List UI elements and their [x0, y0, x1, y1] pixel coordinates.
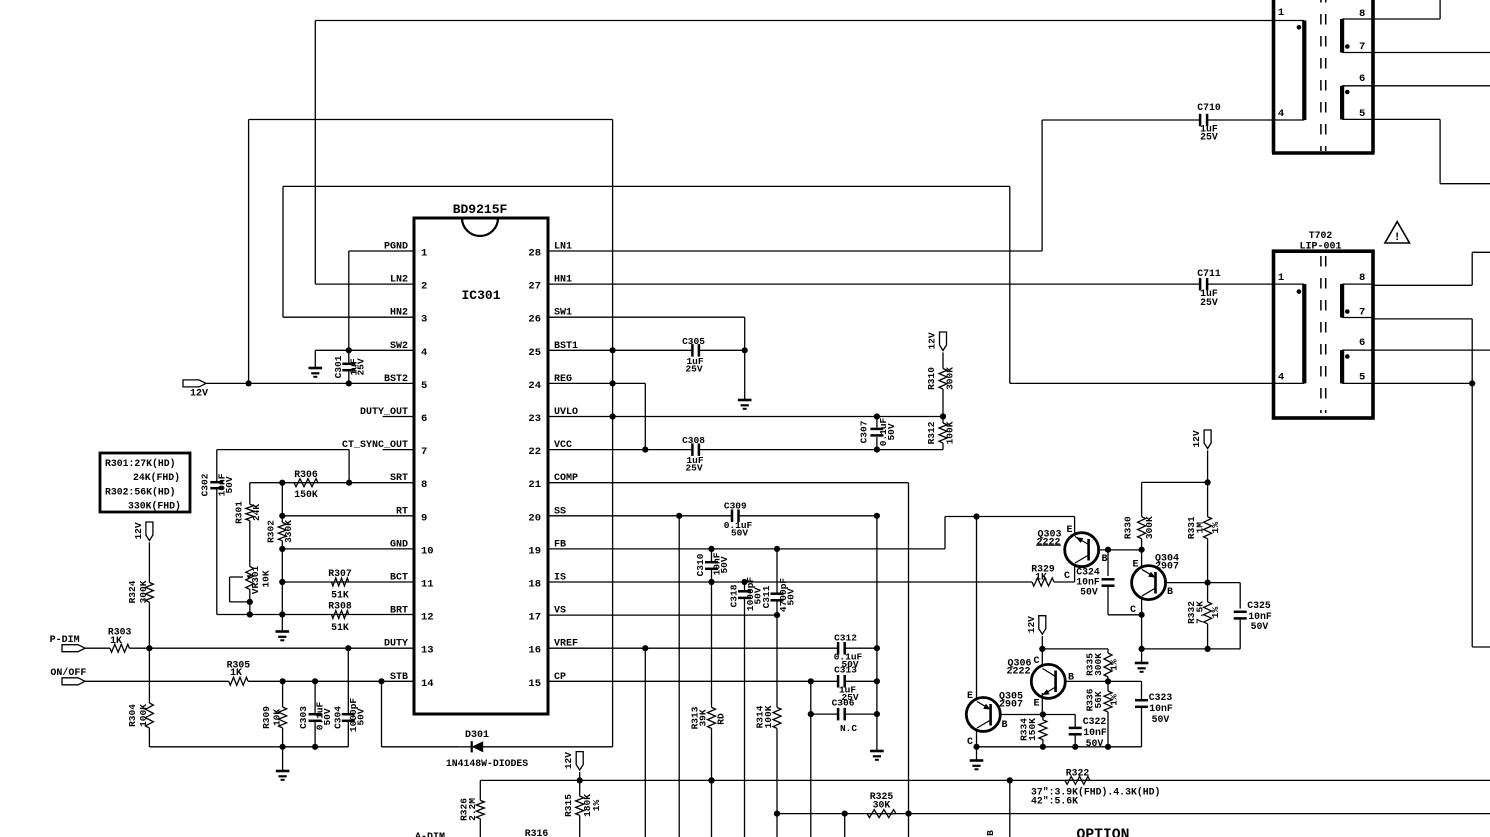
- capacitor C301 1uF 25V (SW2 to BST2): [333, 350, 367, 386]
- svg-text:1N4148W-DIODES: 1N4148W-DIODES: [446, 758, 528, 769]
- svg-text:300K: 300K: [1093, 653, 1104, 676]
- wire COMP pin21 to bottom: [548, 483, 912, 837]
- svg-text:1K: 1K: [1035, 572, 1047, 583]
- svg-text:C711: C711: [1197, 268, 1221, 279]
- svg-text:25V: 25V: [356, 358, 367, 375]
- wire cap-right column to ground: [870, 516, 884, 760]
- svg-text:OPTION: OPTION: [1077, 828, 1130, 837]
- svg-text:10nF: 10nF: [1083, 727, 1107, 738]
- svg-text:100K: 100K: [138, 704, 149, 727]
- svg-text:R309: R309: [261, 706, 272, 729]
- wire VREF riser down to bottom: [644, 648, 646, 837]
- svg-text:50V: 50V: [322, 708, 333, 725]
- svg-text:BD9215F: BD9215F: [453, 202, 508, 217]
- svg-text:1%: 1%: [1109, 659, 1120, 671]
- svg-text:13: 13: [421, 645, 434, 657]
- svg-text:C306: C306: [832, 698, 855, 709]
- wire PGND pin1 to SW2 node: [349, 251, 414, 350]
- svg-text:C325: C325: [1247, 600, 1271, 611]
- wire Q303 base node and C324 column: [1105, 547, 1145, 553]
- wire Q303 base row to R330/Q304: [1097, 549, 1141, 551]
- svg-text:C323: C323: [1149, 692, 1173, 703]
- svg-text:B: B: [985, 830, 996, 836]
- wire Q304 collector down to gnd rail: [1139, 596, 1145, 652]
- wire VREF pin16 row: [548, 645, 839, 651]
- resistor R313 39K with RD tag (on SS column): [690, 582, 727, 837]
- capacitor C322 10nF 50V: [1069, 715, 1107, 750]
- wire R325 row y=813.6: [777, 811, 1490, 817]
- svg-text:4: 4: [1278, 372, 1284, 384]
- resistor R332 7.5K 1%: [1186, 583, 1221, 652]
- wire Q305 collector to gnd rail: [973, 728, 979, 750]
- svg-text:12V: 12V: [1191, 430, 1202, 447]
- svg-text:A-DIM: A-DIM: [415, 832, 445, 837]
- resistor R335 300K 1%: [1085, 649, 1120, 682]
- resistor R314 100K (VS column down): [755, 615, 782, 837]
- wire T701 pin7 to right edge: [1373, 52, 1490, 54]
- resistor R308 51K: [328, 601, 352, 634]
- wire IS pin18 row to R329: [548, 579, 1032, 585]
- IC301 right pin numbers and names (pins 15-28): [528, 242, 578, 690]
- wire CP pin15 row: [548, 678, 839, 684]
- svg-text:C302: C302: [200, 473, 211, 496]
- resistor R322 (37/42 inch options): [1031, 768, 1160, 807]
- wire stub down from R325 row: [844, 814, 846, 837]
- svg-text:50V: 50V: [786, 588, 797, 605]
- capacitor C325 10nF 50V: [1234, 583, 1272, 649]
- svg-text:50V: 50V: [1152, 714, 1170, 725]
- svg-text:R302: R302: [266, 520, 277, 543]
- svg-text:C310: C310: [695, 553, 706, 576]
- capacitor C318 1000pF 50V (IS to VS): [729, 577, 764, 837]
- svg-text:C: C: [1033, 656, 1039, 667]
- svg-text:25V: 25V: [685, 463, 702, 474]
- capacitor C302 10nF 50V: [200, 450, 236, 615]
- resistor R329 1K: [1031, 564, 1074, 587]
- svg-text:VR301: VR301: [250, 565, 261, 594]
- wire Q304 base row to C325: [1164, 580, 1240, 586]
- svg-text:8: 8: [1359, 272, 1365, 284]
- pin6 DUTY_OUT stub: [383, 416, 414, 418]
- connector ON/OFF: [50, 667, 86, 685]
- svg-text:2222: 2222: [1036, 537, 1060, 548]
- resistor R330 300K: [1123, 482, 1156, 549]
- wire STB to D301 row: [382, 681, 613, 747]
- svg-text:B: B: [1001, 720, 1007, 731]
- svg-text:50V: 50V: [886, 423, 897, 440]
- capacitor C710 1uF 25V: [1042, 102, 1273, 143]
- svg-text:1K: 1K: [230, 667, 242, 678]
- ground rail bottom-left: [149, 744, 348, 750]
- ground below Q304 rail: [1135, 649, 1149, 672]
- svg-text:C318: C318: [729, 584, 740, 607]
- wire Q306 base row to C323 column: [1064, 678, 1142, 684]
- svg-text:LIP-001: LIP-001: [1299, 242, 1341, 253]
- power 12V flag above Q306: [1026, 616, 1046, 652]
- svg-text:N.C: N.C: [840, 723, 857, 734]
- wire LN2 net: pin2 to top rail to T701 pin1: [315, 21, 1273, 285]
- wire SRT pin8 row: [250, 480, 414, 486]
- ground at SW2/C301: [309, 350, 349, 377]
- capacitor C305 1uF 25V (BST1-SW1): [682, 336, 745, 375]
- capacitor C303 0.1uF 50V (STB to gnd rail): [298, 681, 333, 747]
- wire T702 pin7 down right side: [1373, 319, 1475, 647]
- svg-text:D301: D301: [465, 730, 489, 741]
- svg-text:150K: 150K: [1027, 718, 1038, 741]
- ground below C305: [738, 350, 752, 409]
- svg-text:C322: C322: [1083, 716, 1107, 727]
- resistor R301 24K (SRT to VR301): [234, 483, 263, 524]
- resistor R324 300K (12V to DUTY): [127, 580, 153, 648]
- svg-text:100K: 100K: [763, 705, 774, 728]
- svg-text:6: 6: [421, 413, 427, 425]
- svg-text:330K: 330K: [283, 520, 294, 543]
- svg-text:6: 6: [1359, 73, 1365, 85]
- wire R322 row stub down at x=1009.8: [1009, 780, 1011, 837]
- wire SS pin20 row: [548, 513, 732, 519]
- capacitor C311 4700pF 50V (FB to VS): [761, 549, 797, 615]
- capacitor C312 0.1uF 50V (VREF): [834, 633, 880, 671]
- svg-text:7: 7: [421, 446, 427, 458]
- svg-text:10nF: 10nF: [1149, 703, 1173, 714]
- svg-text:B: B: [1101, 554, 1107, 565]
- svg-text:27: 27: [528, 281, 541, 293]
- svg-text:10K: 10K: [261, 570, 272, 587]
- wire BRT pin12 rail: [217, 582, 414, 618]
- capacitor C304 1000pF 50V (DUTY to gnd rail): [333, 648, 367, 747]
- svg-text:24K(FHD): 24K(FHD): [133, 472, 180, 483]
- wire FB pin19 row with jog to Q303/Q305 emitters: [548, 513, 1075, 552]
- svg-text:51K: 51K: [331, 622, 349, 633]
- svg-text:C: C: [1130, 605, 1136, 616]
- wire Q306 collector to 12V node: [1041, 649, 1043, 667]
- resistor R326 2.2M: [459, 780, 485, 837]
- svg-text:IC301: IC301: [461, 288, 500, 303]
- wire CP column down to bottom: [810, 681, 812, 837]
- partial rotated label at bottom: [985, 830, 996, 836]
- svg-text:8: 8: [1359, 8, 1365, 20]
- label R316 (cut off at bottom): [525, 828, 549, 837]
- svg-text:5: 5: [1359, 372, 1365, 384]
- svg-text:2: 2: [421, 281, 427, 293]
- svg-text:10K: 10K: [272, 709, 283, 726]
- svg-text:R310: R310: [926, 367, 937, 390]
- svg-text:R304: R304: [127, 704, 138, 727]
- svg-text:26: 26: [528, 314, 541, 326]
- power 12V flag above R331: [1191, 430, 1211, 482]
- svg-text:1%: 1%: [1109, 694, 1120, 706]
- svg-text:17: 17: [528, 612, 541, 624]
- wire BCT pin11 row: [279, 549, 414, 585]
- svg-text:50V: 50V: [1080, 587, 1098, 598]
- resistor R302 330K (SRT col RT to GND): [266, 483, 295, 549]
- svg-text:R315: R315: [563, 794, 574, 817]
- svg-text:50V: 50V: [356, 708, 367, 725]
- svg-text:2907: 2907: [999, 699, 1023, 710]
- wire VCC pin22 row: [548, 449, 692, 451]
- svg-text:E: E: [1033, 699, 1039, 710]
- potentiometer VR301 10K: [230, 521, 272, 615]
- svg-text:19: 19: [528, 545, 541, 557]
- capacitor C307 0.1uF 50V (UVLO to VCC): [859, 417, 898, 450]
- svg-text:8: 8: [421, 479, 427, 491]
- svg-text:12V: 12V: [133, 522, 144, 539]
- wire T702 pin5 to right vertical: [1373, 382, 1472, 384]
- power 12V flag above R324: [133, 522, 153, 583]
- svg-text:300K: 300K: [1144, 516, 1155, 539]
- svg-text:R330: R330: [1123, 516, 1134, 539]
- svg-text:150K: 150K: [294, 489, 318, 500]
- pin7 CT_SYNC_OUT stub: [383, 449, 414, 451]
- wire vertical from SS node down (to bottom circuits): [678, 516, 680, 837]
- svg-text:C305: C305: [682, 336, 705, 347]
- svg-text:C309: C309: [724, 501, 747, 512]
- svg-text:7: 7: [1359, 41, 1365, 53]
- op-amp/controller IC U IC301 BD9215F body: [414, 202, 548, 714]
- wire LN1 pin28 to C710: [548, 120, 1042, 251]
- svg-text:14: 14: [421, 678, 434, 690]
- resistor R331 1M 1%: [1186, 482, 1221, 582]
- svg-text:16: 16: [528, 645, 541, 657]
- svg-text:E: E: [1132, 560, 1138, 571]
- svg-text:7: 7: [1359, 307, 1365, 319]
- svg-text:C311: C311: [761, 585, 772, 608]
- svg-text:4: 4: [1278, 108, 1284, 120]
- capacitor C324 10nF 50V: [1076, 550, 1141, 615]
- resistor R310 300K (12V to UVLO): [926, 367, 956, 417]
- resistor R304 100K (DUTY to gnd rail): [127, 648, 153, 747]
- capacitor C711 1uF 25V: [548, 268, 1274, 308]
- transistor Q304 2907 (PNP): [1130, 554, 1179, 617]
- svg-text:R307: R307: [328, 568, 352, 579]
- wire bottom rail of Q305 block: [977, 746, 1142, 748]
- wire BST1 pin25 row: [548, 347, 692, 353]
- svg-text:12V: 12V: [563, 752, 574, 769]
- capacitor C306 N.C row: [808, 698, 880, 735]
- svg-text:C308: C308: [682, 435, 705, 446]
- diode D301 1N4148W: [446, 730, 528, 769]
- resistor R315 180K 1%: [563, 780, 602, 837]
- wire UVLO pin23 row to R310/R312 node: [548, 413, 946, 419]
- resistor R307 51K: [328, 568, 352, 601]
- svg-text:12V: 12V: [1026, 616, 1037, 633]
- svg-text:330K(FHD): 330K(FHD): [128, 501, 181, 512]
- power 12V flag above R310: [927, 332, 947, 369]
- wire Q305 base row: [999, 714, 1075, 716]
- wire REG pin24 to riser and down to VCC node: [548, 380, 648, 452]
- svg-text:12V: 12V: [927, 332, 938, 349]
- wire gnd rail under Q304: [1142, 648, 1241, 650]
- svg-text:12V: 12V: [190, 389, 208, 400]
- svg-text:30K: 30K: [873, 800, 891, 811]
- svg-text:C301: C301: [333, 355, 344, 378]
- svg-text:12: 12: [421, 612, 434, 624]
- svg-text:6: 6: [1359, 337, 1365, 349]
- svg-text:5: 5: [421, 380, 427, 392]
- svg-text:E: E: [1066, 525, 1072, 536]
- svg-text:5: 5: [1359, 108, 1365, 120]
- wire Q304 emitter to base row: [1141, 550, 1143, 569]
- svg-text:25V: 25V: [1200, 132, 1218, 143]
- label OPTION (cut off): [1077, 828, 1130, 837]
- warning triangle near T702: [1385, 222, 1410, 244]
- resistor R334 150K: [1019, 715, 1047, 750]
- wire GND pin10 row: [279, 546, 414, 552]
- svg-text:24K: 24K: [251, 504, 262, 521]
- svg-text:C: C: [1064, 571, 1070, 582]
- transistor Q306 2222 (NPN): [1006, 656, 1074, 710]
- svg-text:C710: C710: [1197, 102, 1221, 113]
- resistor R305 1K: [85, 660, 414, 686]
- label A-DIM (cut off at bottom): [415, 832, 445, 837]
- svg-text:4: 4: [421, 347, 427, 359]
- wire 12V riser to top distribution rail: [246, 120, 613, 747]
- capacitor C309 0.1uF 50V (SS): [724, 501, 880, 539]
- resistor R325 30K: [867, 791, 896, 818]
- svg-text:R301: R301: [234, 501, 245, 524]
- svg-text:B: B: [1167, 587, 1173, 598]
- svg-text:1K: 1K: [110, 635, 122, 646]
- svg-text:E: E: [967, 691, 973, 702]
- svg-text:C303: C303: [298, 706, 309, 729]
- transistor Q303 2222 (NPN): [1036, 525, 1108, 582]
- svg-text:C313: C313: [834, 665, 857, 676]
- svg-text:25V: 25V: [1200, 297, 1218, 308]
- svg-text:42":5.6K: 42":5.6K: [1031, 796, 1078, 807]
- svg-text:300K: 300K: [945, 367, 956, 390]
- svg-text:25V: 25V: [685, 364, 702, 375]
- svg-text:ON/OFF: ON/OFF: [50, 667, 86, 679]
- svg-text:51K: 51K: [331, 590, 349, 601]
- svg-text:18: 18: [528, 579, 541, 591]
- note box R301/R302 values: [100, 453, 190, 512]
- wire RT pin9 row: [279, 513, 414, 519]
- svg-text:R306: R306: [294, 469, 318, 480]
- transformer T702 LIP-001: [1274, 230, 1374, 418]
- svg-text:7.5K: 7.5K: [1195, 601, 1206, 624]
- svg-text:11: 11: [421, 579, 434, 591]
- svg-text:1: 1: [1278, 7, 1284, 19]
- capacitor C308 1uF 25V (VCC): [682, 435, 943, 474]
- svg-text:R302:56K(HD): R302:56K(HD): [105, 487, 176, 498]
- svg-text:2.2M: 2.2M: [467, 798, 478, 821]
- svg-text:3: 3: [421, 314, 427, 326]
- wire T702 pin6 to right edge: [1373, 349, 1490, 351]
- capacitor C313 1uF 25V (CP): [834, 665, 880, 704]
- svg-text:22: 22: [528, 446, 541, 458]
- wire SW2 pin4 row: [346, 347, 414, 353]
- capacitor C310 10nF 50V (FB to IS): [695, 549, 730, 582]
- svg-text:2222: 2222: [1006, 666, 1030, 677]
- svg-text:!: !: [1394, 232, 1401, 244]
- wire HN2 net: pin3 left-up rail across to T702 pin4: [283, 186, 1274, 383]
- svg-text:2907: 2907: [1155, 561, 1179, 572]
- wire T701 pin6 to right edge: [1373, 85, 1490, 87]
- svg-text:39K: 39K: [698, 709, 709, 726]
- power 12V flag (BST2 supply): [183, 380, 414, 400]
- svg-text:20: 20: [528, 512, 541, 524]
- svg-text:T702: T702: [1309, 230, 1333, 241]
- IC301 left pin numbers and names (pins 1-14): [342, 242, 434, 690]
- svg-text:R324: R324: [127, 580, 138, 603]
- svg-text:R316: R316: [525, 828, 549, 837]
- resistor R312 100K (UVLO to VCC): [926, 417, 956, 450]
- wire SW1 pin26 to C305 right node: [548, 317, 748, 353]
- svg-text:R322: R322: [1066, 768, 1090, 779]
- svg-text:25: 25: [528, 347, 541, 359]
- svg-text:R308: R308: [328, 601, 352, 612]
- transistor Q305 2907 (PNP): [966, 691, 1023, 748]
- svg-text:50V: 50V: [731, 528, 748, 539]
- svg-text:21: 21: [528, 479, 541, 491]
- ground below rail at R309: [276, 747, 290, 780]
- svg-text:1: 1: [421, 248, 427, 260]
- wire 12V rail to R330: [1142, 479, 1211, 485]
- wire Q306 emitter to Q305 base node: [1040, 693, 1046, 718]
- svg-text:1%: 1%: [1210, 607, 1221, 619]
- svg-text:50V: 50V: [1251, 621, 1269, 632]
- capacitor C323 10nF 50V: [1135, 681, 1173, 746]
- svg-text:RD: RD: [716, 713, 727, 725]
- wire T702 pin8 step to right edge: [1373, 252, 1490, 285]
- svg-text:23: 23: [528, 413, 541, 425]
- svg-text:C307: C307: [859, 420, 870, 443]
- svg-text:100K: 100K: [945, 421, 956, 444]
- svg-text:1M: 1M: [1195, 522, 1206, 534]
- wire VS pin17 row: [548, 612, 780, 618]
- svg-text:C304: C304: [333, 706, 344, 729]
- svg-text:56K: 56K: [1093, 691, 1104, 708]
- resistor R306 150K: [294, 469, 318, 500]
- wire T701 pin5 step to right edge: [1373, 119, 1490, 183]
- connector P-DIM: [50, 635, 85, 652]
- svg-text:50V: 50V: [224, 476, 235, 493]
- svg-text:1%: 1%: [1210, 522, 1221, 534]
- resistor R309 10K (STB to gnd rail): [261, 681, 287, 747]
- transformer T701 (top, cut off): [1272, 0, 1375, 153]
- wire Q305 emitter to FB jog row: [976, 517, 978, 701]
- svg-text:28: 28: [528, 248, 541, 260]
- svg-text:1: 1: [1278, 272, 1284, 284]
- wire T701 pin8 up to top edge: [1373, 0, 1440, 19]
- svg-text:R312: R312: [926, 421, 937, 444]
- svg-text:9: 9: [421, 512, 427, 524]
- ground below Q305: [970, 747, 984, 770]
- svg-text:P-DIM: P-DIM: [50, 635, 80, 646]
- svg-text:24: 24: [528, 380, 541, 392]
- wire CT net from C302 top across and down to SRT row: [217, 450, 352, 486]
- svg-text:R301:27K(HD): R301:27K(HD): [105, 458, 176, 469]
- svg-text:15: 15: [528, 678, 541, 690]
- power 12V flag above R315: [563, 752, 583, 781]
- svg-text:300K: 300K: [138, 580, 149, 603]
- svg-text:50V: 50V: [719, 556, 730, 573]
- resistor R336 56K 1%: [1085, 681, 1120, 750]
- resistor R303 1K: [85, 627, 414, 653]
- wire 12V rail row y=780 long: [480, 777, 1490, 783]
- svg-text:C312: C312: [834, 633, 857, 644]
- svg-text:C: C: [967, 737, 973, 748]
- wire 12V rail to R335: [1042, 648, 1108, 650]
- wire right vertical exit at y=647: [1472, 646, 1490, 648]
- svg-text:1%: 1%: [591, 800, 602, 812]
- svg-text:10: 10: [421, 545, 434, 557]
- ground below R302 column: [276, 615, 290, 641]
